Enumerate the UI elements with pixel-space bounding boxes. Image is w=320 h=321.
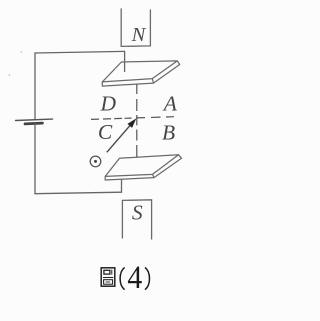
svg-text:A: A — [162, 91, 178, 115]
capacitor top plate — [102, 61, 179, 86]
wire left vertical lower — [34, 124, 36, 194]
battery short plate — [25, 122, 43, 126]
wire bottom horizontal — [35, 192, 122, 194]
magnet S pole box — [122, 200, 151, 240]
svg-text:N: N — [131, 24, 147, 46]
caption paren ) — [145, 267, 150, 289]
dashed center line horizontal — [91, 117, 174, 120]
svg-text:S: S — [132, 201, 143, 225]
caption paren ( — [120, 267, 125, 289]
wire top plate lead — [124, 51, 126, 71]
svg-text:B: B — [162, 121, 175, 145]
current out-of-page symbol — [90, 156, 101, 167]
svg-text:4: 4 — [127, 259, 142, 296]
speck left — [9, 74, 11, 76]
wire top horizontal — [35, 51, 125, 53]
wire left vertical upper — [34, 53, 36, 120]
svg-text:C: C — [98, 120, 113, 144]
capacitor bottom plate — [105, 155, 181, 180]
dashed center line vertical — [136, 84, 138, 157]
speck top-left — [21, 51, 23, 53]
wire bottom plate lead — [121, 179, 123, 192]
battery long plate — [16, 119, 53, 120]
caption glyph 圖 — [101, 268, 115, 286]
svg-text:D: D — [100, 92, 117, 116]
magnet N pole box — [121, 9, 150, 47]
velocity arrow — [107, 119, 136, 152]
